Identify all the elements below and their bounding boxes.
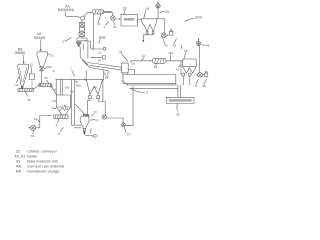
svg-text:98: 98 bbox=[173, 43, 177, 47]
svg-text:28: 28 bbox=[98, 58, 102, 62]
wire fan47 to stack49 bbox=[198, 46, 200, 73]
wire boiler to fan (double) bbox=[104, 12, 113, 16]
svg-text:3: 3 bbox=[146, 91, 148, 95]
distributor plate bbox=[77, 36, 87, 40]
svg-text:61: 61 bbox=[34, 117, 38, 121]
svg-text:100A: 100A bbox=[194, 16, 203, 20]
svg-text:43: 43 bbox=[176, 67, 180, 71]
label 45 with leader bbox=[154, 63, 158, 69]
fan 47 bbox=[196, 72, 202, 77]
label 3 with leader bbox=[131, 89, 148, 95]
svg-text:58a: 58a bbox=[76, 84, 81, 88]
svg-text:62: 62 bbox=[65, 107, 69, 111]
svg-text:74: 74 bbox=[127, 132, 131, 136]
fan 74a bbox=[102, 115, 106, 119]
bag filter 46 bbox=[183, 59, 197, 73]
wire BB arrow into cyclone 53 bbox=[22, 55, 25, 62]
svg-text:71: 71 bbox=[94, 85, 98, 89]
granulator circle bbox=[94, 135, 97, 138]
chute assembly walls bbox=[80, 41, 90, 68]
screw conveyor right bbox=[39, 83, 52, 86]
kiln feed duct (triple line) bbox=[88, 63, 122, 71]
wire slag to granulator bbox=[86, 135, 94, 137]
label 91 with leader bbox=[97, 14, 101, 26]
wire fan96 to 98 arrow bbox=[166, 34, 168, 36]
svg-text:92: 92 bbox=[113, 25, 117, 29]
wire chain to boiler with arrow bbox=[84, 13, 91, 17]
svg-text:10: 10 bbox=[95, 118, 99, 122]
rotary kiln 41 bbox=[123, 75, 176, 84]
label 58a with leader bbox=[75, 81, 81, 88]
label 93 with leader bbox=[123, 6, 127, 14]
svg-text:55: 55 bbox=[44, 76, 48, 80]
valve under W right bbox=[97, 96, 100, 99]
fan 92 bbox=[111, 16, 116, 21]
svg-text:51: 51 bbox=[51, 53, 55, 57]
wire fan to mill arrow bbox=[115, 18, 120, 20]
wire fan74 return to kiln bbox=[125, 86, 133, 125]
raw material note with leader bbox=[99, 36, 105, 43]
node AA (second feed) bbox=[34, 32, 45, 39]
riser bottom elbow bbox=[72, 125, 81, 128]
svg-text:53: 53 bbox=[15, 83, 19, 87]
melting furnace 10 bbox=[80, 114, 90, 128]
injector arrow 2 with box bbox=[91, 56, 106, 60]
wire conveyor to box 32 (double drop) bbox=[178, 85, 180, 97]
feeder valve top of chain bbox=[81, 16, 85, 20]
fan 63 bbox=[31, 125, 36, 130]
label 51 with leader bbox=[48, 53, 54, 57]
wire air arrows into dryer bbox=[52, 100, 55, 102]
wire conveyor to dryer bbox=[51, 87, 57, 95]
wire kiln dust drop bbox=[122, 80, 128, 85]
raw material mill 93 bbox=[121, 14, 138, 26]
node BB (sludge feed) bbox=[15, 48, 25, 55]
legend line 5 bbox=[16, 168, 60, 173]
boiler 91 bbox=[93, 10, 104, 14]
wire mill to bag filter bbox=[138, 18, 142, 20]
dryer grate conveyor bbox=[54, 115, 68, 118]
legend line 1 bbox=[16, 148, 58, 153]
label 25 with leader bbox=[105, 71, 109, 79]
svg-text:72: 72 bbox=[105, 75, 109, 79]
svg-text:32: 32 bbox=[176, 112, 180, 116]
wire fan63 duct to dryer bbox=[36, 116, 51, 128]
label 100A with leader bbox=[185, 16, 203, 22]
wire dashed from box52 bbox=[31, 80, 33, 89]
boiler 45 bbox=[152, 58, 166, 63]
vent arrow bbox=[180, 46, 182, 49]
svg-text:54: 54 bbox=[48, 65, 52, 69]
hopper chain box 1 bbox=[80, 20, 85, 26]
junction blob conveyor end bbox=[50, 85, 52, 88]
label 96 with leader bbox=[163, 38, 168, 47]
svg-text:41: 41 bbox=[119, 50, 123, 54]
svg-text:47: 47 bbox=[194, 84, 198, 88]
fan 74 bbox=[122, 123, 126, 127]
wire W left drop to melter bbox=[87, 99, 90, 115]
legend line 4 bbox=[16, 163, 64, 168]
svg-text:26: 26 bbox=[132, 62, 136, 66]
svg-text:22: 22 bbox=[98, 51, 102, 55]
label 63 with leader bbox=[31, 131, 35, 139]
label 10 with leader bbox=[90, 118, 98, 122]
label 56 with leader bbox=[25, 92, 31, 102]
slag valve bbox=[83, 129, 85, 131]
label 62 with leader bbox=[64, 105, 68, 111]
hopper chain box 2 bbox=[80, 27, 85, 31]
injector arrow 1 with circle bbox=[91, 47, 106, 50]
legend line 2 bbox=[14, 153, 38, 158]
wire W right drop to fan bbox=[98, 99, 105, 115]
collector W hopper 71 bbox=[86, 70, 103, 101]
label 54 with leader bbox=[44, 65, 52, 69]
hopper 51 bbox=[37, 52, 48, 67]
label 2 with leader bbox=[62, 38, 72, 45]
label 98 with leader bbox=[173, 39, 177, 48]
svg-text:96: 96 bbox=[164, 44, 168, 48]
svg-text:93: 93 bbox=[123, 6, 127, 10]
dryer inlet duct (double) bbox=[60, 79, 62, 95]
valve under filter46 left bbox=[182, 73, 185, 76]
label 45a with leader bbox=[168, 51, 173, 61]
svg-text:BB: BB bbox=[18, 48, 23, 52]
slag arrow (solid) bbox=[83, 131, 85, 135]
wire fan to fan2 bbox=[107, 118, 124, 123]
wire valve drop to conveyor bbox=[40, 71, 42, 84]
label 42 with leader bbox=[142, 54, 146, 61]
label 8 with leader bbox=[58, 128, 63, 136]
label 46 with leader bbox=[184, 49, 188, 59]
wire incline connector bbox=[34, 85, 40, 89]
svg-text:AA: AA bbox=[37, 32, 42, 36]
label 48 with leader bbox=[202, 79, 207, 88]
svg-text:1: 1 bbox=[103, 25, 105, 29]
hopper 53 inner cone bbox=[20, 68, 27, 82]
stack 49 bbox=[196, 38, 200, 46]
clinker conveyor under kiln bbox=[129, 85, 178, 88]
inlet collar pipe 26 bbox=[128, 70, 135, 75]
label 32 with leader bbox=[176, 104, 180, 117]
label 47 with leader bbox=[194, 79, 198, 88]
fan 96 bbox=[161, 33, 166, 38]
svg-text:95: 95 bbox=[165, 10, 169, 14]
label 49 with leader bbox=[202, 43, 210, 47]
clinker conveyor box 32 bbox=[166, 97, 194, 103]
kiln inlet housing bbox=[122, 63, 129, 73]
label 1 with leader bbox=[103, 21, 108, 29]
rotary valve under 53 (dark) bbox=[21, 86, 24, 89]
wire dryer left standpipe bbox=[55, 79, 57, 95]
node AA (top feed label) bbox=[58, 5, 74, 12]
dryer gas line (horizontal) bbox=[56, 78, 104, 80]
wire boiler45 to filter46 bbox=[166, 60, 182, 62]
label 94 with leader bbox=[144, 7, 150, 19]
svg-text:48: 48 bbox=[202, 84, 206, 88]
svg-text:94: 94 bbox=[146, 7, 150, 11]
wire riser diagonal to melter bbox=[75, 104, 84, 114]
svg-text:BB: BB bbox=[16, 168, 22, 173]
label 92 with leader bbox=[113, 21, 117, 29]
label 74 with leader bbox=[124, 127, 130, 136]
feed funnel (dark) bbox=[76, 42, 81, 47]
hopper chain box 3 bbox=[79, 31, 85, 36]
svg-text:56: 56 bbox=[28, 98, 32, 102]
label 7 with leader bbox=[70, 67, 75, 77]
wire air intake arrow bbox=[29, 127, 31, 129]
riser duct (double vertical) bbox=[72, 79, 75, 125]
junction blob W left bbox=[84, 79, 86, 81]
svg-text:45: 45 bbox=[154, 65, 158, 69]
label 95 with leader bbox=[160, 10, 169, 14]
wire valve drops bbox=[183, 76, 189, 85]
pump 98 bbox=[170, 29, 173, 35]
label 43 with leader bbox=[176, 65, 181, 71]
label 61 bbox=[34, 117, 40, 122]
metering box 52 bbox=[30, 74, 35, 80]
wire kiln exhaust riser bbox=[131, 61, 151, 63]
filter dust collector with arrow bbox=[142, 33, 153, 43]
stack fan 95 bbox=[156, 1, 160, 19]
label 53 with leader bbox=[15, 77, 19, 87]
svg-text:63: 63 bbox=[31, 134, 35, 138]
wire AA2 arrow into hopper 51 bbox=[40, 40, 42, 50]
svg-text:91: 91 bbox=[97, 22, 101, 26]
hopper 53 bbox=[18, 64, 29, 86]
wire boiler drain bbox=[93, 14, 95, 49]
label 55 with leader bbox=[44, 76, 48, 84]
screw conveyor left bbox=[18, 89, 34, 92]
label 72 with leader bbox=[104, 73, 108, 79]
svg-text:8: 8 bbox=[58, 132, 60, 136]
label 11 with leader bbox=[89, 127, 92, 133]
label 41 with leader bbox=[119, 50, 128, 61]
bag filter 94 bbox=[142, 19, 165, 34]
fluidized dryer 9 bbox=[56, 95, 70, 115]
svg-text:Dewatered sludge: Dewatered sludge bbox=[27, 168, 60, 173]
label 52 with leader bbox=[30, 63, 34, 74]
svg-text:9: 9 bbox=[56, 123, 58, 127]
valve under W left bbox=[89, 96, 92, 99]
svg-text:AA: AA bbox=[65, 5, 70, 9]
svg-text:52: 52 bbox=[30, 63, 34, 67]
valve under filter46 right bbox=[188, 73, 191, 76]
svg-text:49: 49 bbox=[206, 43, 210, 47]
wire duct down to kiln end bbox=[180, 61, 182, 75]
svg-text:46: 46 bbox=[184, 49, 188, 53]
legend line 3 bbox=[16, 158, 58, 163]
svg-text:7: 7 bbox=[70, 67, 72, 71]
wire AA feed line to chain bbox=[65, 12, 81, 18]
svg-text:45a: 45a bbox=[168, 51, 173, 55]
label 73 with leader bbox=[92, 110, 97, 116]
svg-text:8: 8 bbox=[53, 69, 55, 73]
svg-text:11: 11 bbox=[89, 127, 92, 131]
label 9 with leader bbox=[56, 119, 59, 127]
motor 48 bbox=[202, 71, 207, 77]
svg-text:2: 2 bbox=[62, 40, 64, 44]
rotary valve under 51 bbox=[39, 67, 43, 71]
